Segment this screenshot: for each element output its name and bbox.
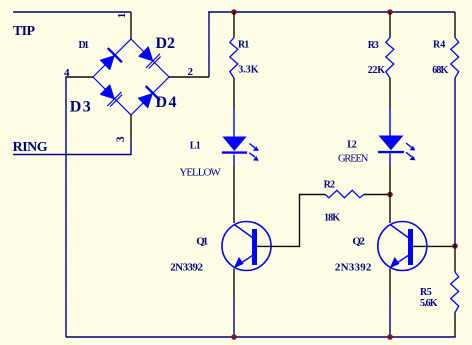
resistor R3 pin top xyxy=(389,12,391,38)
svg-text:R1: R1 xyxy=(238,39,249,50)
wire Q2 emitter xyxy=(389,269,391,301)
svg-text:22K: 22K xyxy=(368,65,386,76)
wire L2 to junction xyxy=(389,164,391,195)
wire R4 to junction xyxy=(454,78,456,246)
junction bottom Q1 xyxy=(231,334,237,340)
LED L1 xyxy=(222,137,259,161)
svg-text:RING: RING xyxy=(13,140,48,155)
junction R2 xyxy=(387,192,393,198)
svg-text:3: 3 xyxy=(115,136,127,142)
wire TIP xyxy=(13,11,131,13)
resistor R3 pin bottom xyxy=(389,78,391,109)
wire riser to R2 xyxy=(299,194,325,196)
resistor R1 pin top xyxy=(233,12,235,38)
transistor Q1 xyxy=(222,222,271,271)
wire Q1 base xyxy=(257,245,300,247)
junction bottom Q2 xyxy=(387,334,393,340)
wire L1 to Q1 collector xyxy=(233,165,235,223)
wire top rail xyxy=(208,11,455,13)
svg-text:Q1: Q1 xyxy=(196,235,208,247)
svg-text:D2: D2 xyxy=(156,35,176,52)
svg-text:L1: L1 xyxy=(190,140,201,151)
svg-text:D3: D3 xyxy=(70,99,91,116)
resistor R1 xyxy=(230,38,238,79)
wire pin2 riser xyxy=(208,11,210,77)
svg-text:3.3K: 3.3K xyxy=(238,64,258,75)
svg-text:D1: D1 xyxy=(79,40,90,51)
LED L1 pin top xyxy=(233,110,235,137)
svg-text:L2: L2 xyxy=(347,139,357,150)
resistor R3 xyxy=(386,38,394,79)
pin 1 lead xyxy=(130,12,132,39)
pin 2 lead xyxy=(169,76,209,78)
svg-text:5.6K: 5.6K xyxy=(420,298,438,309)
svg-text:R2: R2 xyxy=(324,179,335,190)
diode D4 xyxy=(136,86,160,110)
svg-text:D4: D4 xyxy=(156,94,177,111)
resistor R2 xyxy=(325,190,364,198)
svg-text:2N3392: 2N3392 xyxy=(335,262,372,274)
LED L1 pin bottom xyxy=(233,155,235,166)
wire RING xyxy=(13,154,131,156)
wire pin3 to RING xyxy=(130,141,132,155)
wire R2 to column xyxy=(364,194,390,196)
svg-text:R3: R3 xyxy=(368,40,379,51)
svg-text:2N3392: 2N3392 xyxy=(170,262,203,274)
svg-text:2: 2 xyxy=(188,66,194,78)
wire bottom rail xyxy=(66,336,456,338)
wire junction to Q2 collector xyxy=(389,195,391,224)
svg-text:R5: R5 xyxy=(420,287,432,298)
wire R4 riser xyxy=(454,12,456,38)
diode D2 xyxy=(137,45,162,70)
svg-text:GREEN: GREEN xyxy=(338,154,369,165)
pin 4 lead xyxy=(66,76,93,78)
svg-text:18K: 18K xyxy=(324,212,340,223)
bridge diamond xyxy=(93,39,169,115)
svg-text:Q2: Q2 xyxy=(352,235,365,247)
svg-text:YELLOW: YELLOW xyxy=(179,166,221,178)
wire Q1 emitter xyxy=(233,269,235,301)
LED L2 pin top xyxy=(389,109,391,136)
svg-text:68K: 68K xyxy=(432,65,448,76)
resistor R1 pin bottom xyxy=(233,78,235,110)
resistor R5 xyxy=(451,272,459,313)
junction top R1 xyxy=(231,9,237,15)
wire left column xyxy=(65,76,67,337)
resistor R5 pin top xyxy=(454,246,456,272)
svg-text:R4: R4 xyxy=(433,40,445,51)
diode D3 xyxy=(98,83,123,108)
junction top R3 xyxy=(387,9,393,15)
wire base riser xyxy=(299,195,301,248)
diode D1 xyxy=(98,48,122,72)
junction Q2 base R4 R5 xyxy=(452,243,458,249)
resistor R5 pin bottom xyxy=(454,313,456,338)
resistor R4 xyxy=(451,38,459,79)
LED L2 xyxy=(378,136,415,161)
svg-text:4: 4 xyxy=(64,67,70,79)
pin 3 lead xyxy=(130,115,132,141)
wire Q2 base xyxy=(413,245,455,247)
transistor Q2 xyxy=(378,222,427,271)
LED L2 pin bottom xyxy=(389,154,391,165)
svg-text:TIP: TIP xyxy=(13,24,35,39)
svg-text:1: 1 xyxy=(116,13,128,19)
